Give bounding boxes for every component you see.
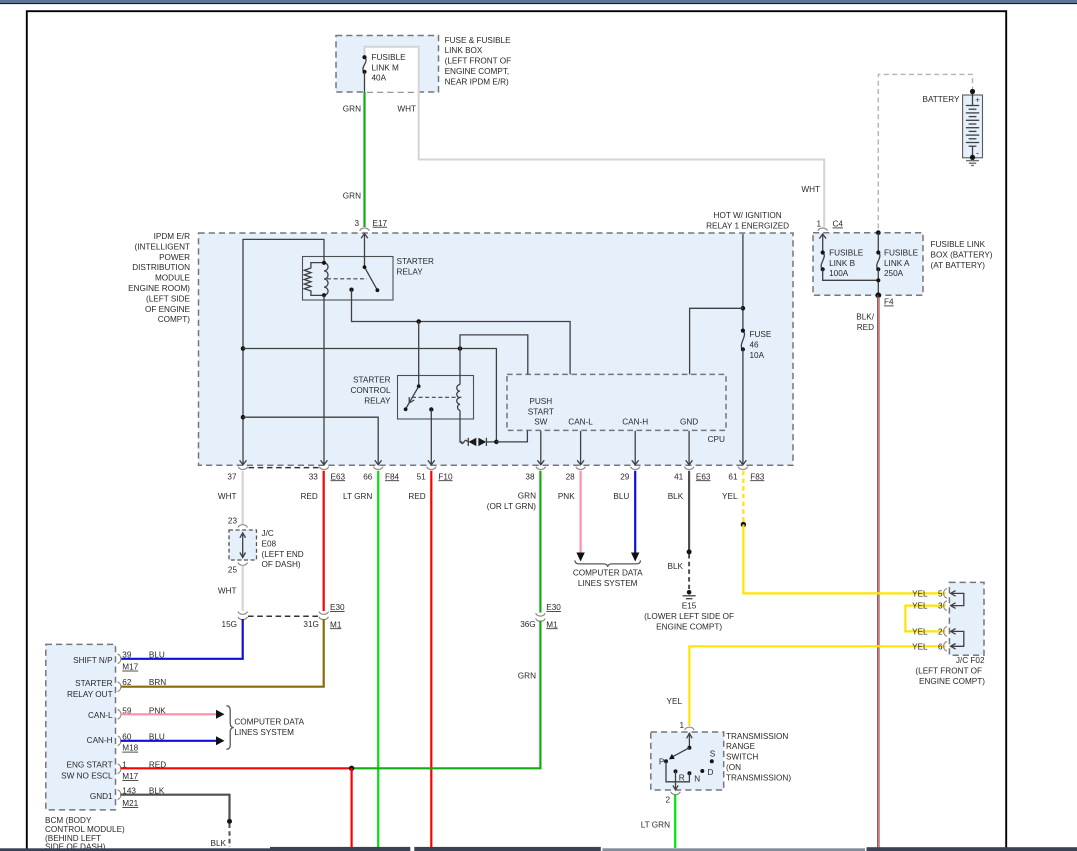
wire BRN 31G to BCM pin 62 bbox=[121, 619, 324, 687]
starter control relay box bbox=[398, 376, 474, 420]
svg-text:E15: E15 bbox=[682, 602, 697, 611]
svg-text:SW: SW bbox=[534, 418, 547, 427]
svg-text:WHT: WHT bbox=[397, 105, 416, 114]
svg-text:M21: M21 bbox=[122, 799, 138, 808]
svg-text:CAN-L: CAN-L bbox=[568, 418, 593, 427]
arrow up at C4 inside box bbox=[819, 234, 826, 239]
bottom bar segments bbox=[0, 848, 270, 851]
svg-text:E30: E30 bbox=[546, 603, 561, 612]
wire BLU CAN-H to data lines bbox=[121, 740, 217, 742]
svg-text:ENGINE COMPT): ENGINE COMPT) bbox=[656, 622, 722, 631]
ignition feed rail with fuse 46 bbox=[742, 234, 744, 331]
TRS contact P bbox=[664, 759, 668, 763]
svg-text:(LEFT FRONT OF: (LEFT FRONT OF bbox=[915, 667, 982, 676]
J/C F02 box bbox=[949, 582, 984, 655]
svg-text:23: 23 bbox=[228, 517, 238, 526]
arrow up TRS pin 1 bbox=[687, 733, 693, 738]
svg-text:ENG START: ENG START bbox=[66, 760, 112, 769]
svg-text:31G: 31G bbox=[303, 620, 318, 629]
svg-text:STARTER: STARTER bbox=[353, 376, 391, 385]
svg-text:M1: M1 bbox=[546, 620, 558, 629]
svg-text:TRANSMISSION: TRANSMISSION bbox=[726, 732, 788, 741]
svg-text:GRN: GRN bbox=[343, 105, 361, 114]
svg-text:LINK M: LINK M bbox=[372, 63, 399, 72]
wire top rail to starter relay coil bbox=[243, 239, 324, 348]
wire PNK CAN-L to data lines bbox=[121, 713, 217, 715]
starter relay box bbox=[303, 257, 394, 301]
pin arrows at IPDM bottom edge bbox=[240, 460, 747, 465]
wire LT GRN pin 66 down bbox=[377, 471, 379, 848]
svg-text:WHT: WHT bbox=[801, 185, 820, 194]
wire LT GRN TRS pin 2 down bbox=[674, 795, 676, 848]
svg-text:E63: E63 bbox=[331, 472, 346, 481]
pin connector arcs below IPDM bbox=[238, 467, 748, 470]
node F4 on box bottom bbox=[875, 292, 881, 298]
svg-text:D: D bbox=[708, 768, 714, 777]
svg-text:62: 62 bbox=[122, 678, 132, 687]
fusible link B bbox=[822, 234, 824, 253]
svg-text:DISTRIBUTION: DISTRIBUTION bbox=[132, 263, 190, 272]
svg-text:CAN-H: CAN-H bbox=[87, 736, 113, 745]
svg-text:(LEFT SIDE: (LEFT SIDE bbox=[146, 294, 191, 303]
svg-text:(LEFT FRONT OF: (LEFT FRONT OF bbox=[445, 57, 512, 66]
dashed actuator link control relay bbox=[412, 396, 462, 398]
svg-text:6: 6 bbox=[938, 642, 943, 651]
svg-text:ENGINE COMPT): ENGINE COMPT) bbox=[919, 677, 985, 686]
diode D1 (pointing left) bbox=[467, 438, 469, 446]
svg-text:E30: E30 bbox=[330, 603, 345, 612]
svg-text:66: 66 bbox=[363, 472, 373, 481]
connector arcs at 36G bbox=[536, 613, 546, 616]
wire CPU push start sw to pin 38 bbox=[540, 431, 542, 465]
double arrow inside J/C E08 bbox=[242, 535, 244, 557]
wire BLU 15G to BCM pin 39 bbox=[121, 619, 243, 659]
svg-text:BRN: BRN bbox=[149, 678, 166, 687]
connector arc 23 bbox=[238, 525, 248, 528]
white notch inside fuse box (WHT wire loop) bbox=[365, 47, 419, 92]
svg-text:LINK A: LINK A bbox=[884, 259, 910, 268]
wire YEL pin 6 to transmission range switch bbox=[689, 646, 945, 726]
starter relay switch arm bbox=[365, 267, 378, 290]
svg-text:J/C: J/C bbox=[262, 529, 274, 538]
svg-text:41: 41 bbox=[674, 472, 684, 481]
svg-text:F4: F4 bbox=[884, 298, 894, 307]
svg-text:P: P bbox=[659, 758, 665, 767]
fuse 46 symbol bbox=[741, 331, 744, 350]
svg-text:33: 33 bbox=[309, 472, 319, 481]
control relay coil bbox=[459, 349, 461, 385]
connector arc TRS pin 1 bbox=[685, 727, 695, 730]
svg-text:61: 61 bbox=[728, 472, 738, 481]
svg-text:TRANSMISSION): TRANSMISSION) bbox=[726, 773, 791, 782]
svg-text:LT GRN: LT GRN bbox=[641, 820, 670, 829]
transmission range switch box bbox=[651, 732, 724, 790]
node coil feed bbox=[458, 346, 463, 351]
wire coil to pin 33 bbox=[323, 295, 325, 464]
svg-text:M1: M1 bbox=[330, 620, 342, 629]
wire RED ENG START to junction bbox=[121, 767, 352, 769]
J/C F02 pin arcs bbox=[944, 589, 947, 652]
battery ground bars bbox=[966, 160, 979, 162]
svg-text:38: 38 bbox=[525, 472, 535, 481]
svg-text:LT GRN: LT GRN bbox=[343, 492, 372, 501]
J/C F02 internal arrows bbox=[951, 591, 956, 650]
svg-text:28: 28 bbox=[566, 472, 576, 481]
svg-text:100A: 100A bbox=[829, 269, 849, 278]
svg-text:FUSIBLE: FUSIBLE bbox=[372, 53, 407, 62]
svg-text:CONTROL MODULE): CONTROL MODULE) bbox=[45, 825, 125, 834]
dashed wire battery to fusible link box bbox=[878, 74, 972, 232]
svg-text:GND1: GND1 bbox=[90, 792, 113, 801]
wire CPU CAN-L to pin 28 bbox=[580, 431, 582, 465]
top toolbar bar bbox=[0, 0, 1077, 3]
fusible link A bbox=[877, 233, 879, 253]
svg-text:COMPT): COMPT) bbox=[158, 315, 191, 324]
svg-text:BCM (BODY: BCM (BODY bbox=[45, 816, 92, 825]
svg-text:FUSE: FUSE bbox=[750, 330, 772, 339]
brace computer data lines center bbox=[575, 560, 641, 567]
svg-text:HOT W/ IGNITION: HOT W/ IGNITION bbox=[714, 211, 782, 220]
svg-text:STARTER: STARTER bbox=[397, 257, 435, 266]
svg-text:PUSH: PUSH bbox=[529, 397, 552, 406]
svg-text:(ON: (ON bbox=[726, 763, 741, 772]
svg-text:3: 3 bbox=[938, 602, 943, 611]
wire WHT from fusible link M to C4 bbox=[365, 47, 825, 227]
wire BLK pin 41 to ground bbox=[688, 471, 690, 551]
TRS contact S bbox=[710, 759, 714, 763]
wire GRN 36G to junction with ENG START bbox=[352, 621, 541, 769]
connector arc 25 bbox=[238, 563, 248, 566]
svg-text:250A: 250A bbox=[884, 269, 904, 278]
svg-text:(LEFT END: (LEFT END bbox=[262, 550, 304, 559]
wire RED pin 33 to 31G bbox=[323, 471, 325, 611]
connector E17 arc bbox=[360, 228, 370, 231]
svg-text:NEAR IPDM E/R): NEAR IPDM E/R) bbox=[445, 77, 509, 86]
wire fuse 46 to pin 61 bbox=[742, 349, 744, 464]
svg-text:CAN-H: CAN-H bbox=[622, 418, 648, 427]
wire CPU CAN-H to pin 29 bbox=[634, 431, 636, 465]
fuse and fusible link box (top) bbox=[336, 36, 439, 93]
svg-text:BLK/: BLK/ bbox=[856, 313, 874, 322]
svg-text:N: N bbox=[694, 775, 700, 784]
IPDM E/R module box bbox=[199, 233, 794, 465]
J/C F02 internal jumper 5-3 bbox=[951, 593, 964, 605]
svg-text:GRN: GRN bbox=[518, 492, 536, 501]
svg-text:2: 2 bbox=[938, 627, 943, 636]
svg-text:(AT BATTERY): (AT BATTERY) bbox=[931, 261, 986, 270]
node links join bbox=[876, 278, 880, 282]
svg-text:39: 39 bbox=[122, 651, 132, 660]
svg-text:BLU: BLU bbox=[149, 651, 165, 660]
node on left rail bbox=[241, 346, 246, 351]
svg-text:ENGINE COMPT,: ENGINE COMPT, bbox=[445, 67, 510, 76]
svg-text:RED: RED bbox=[301, 492, 318, 501]
svg-text:+: + bbox=[975, 96, 980, 105]
wire left rail to diode branch bbox=[243, 349, 496, 442]
connector arcs at 31G bbox=[319, 612, 329, 615]
wire BLK/RED battery feed down right side bbox=[877, 295, 879, 848]
dashed bulkhead line E30/M1 bbox=[248, 615, 319, 617]
svg-text:COMPUTER DATA: COMPUTER DATA bbox=[573, 569, 643, 578]
svg-text:GRN: GRN bbox=[518, 672, 536, 681]
svg-text:(LOWER LEFT SIDE OF: (LOWER LEFT SIDE OF bbox=[644, 612, 734, 621]
svg-text:MODULE: MODULE bbox=[155, 274, 191, 283]
wire WHT pin 37 to J/C E08 bbox=[242, 471, 244, 525]
svg-text:RELAY: RELAY bbox=[364, 397, 391, 406]
J/C E08 box bbox=[229, 530, 257, 560]
svg-text:S: S bbox=[710, 750, 716, 759]
wire RED pin 51 down bbox=[430, 471, 432, 848]
svg-text:(OR LT GRN): (OR LT GRN) bbox=[487, 502, 537, 511]
svg-text:J/C F02: J/C F02 bbox=[956, 656, 985, 665]
control relay switch bbox=[418, 322, 420, 387]
svg-text:IPDM E/R: IPDM E/R bbox=[154, 232, 190, 241]
connector C4 arc bbox=[818, 228, 828, 231]
diode D2 (pointing right) bbox=[478, 438, 486, 446]
TRS contact D bbox=[700, 769, 704, 773]
svg-text:BLK: BLK bbox=[668, 492, 684, 501]
svg-text:C4: C4 bbox=[833, 220, 844, 229]
wire E17 to starter relay common bbox=[364, 234, 366, 267]
svg-text:25: 25 bbox=[228, 566, 238, 575]
wire coil to diode line bbox=[460, 410, 463, 442]
wire PNK pin 28 to data lines bbox=[579, 471, 581, 553]
svg-text:RANGE: RANGE bbox=[726, 742, 756, 751]
svg-text:BLK: BLK bbox=[211, 839, 227, 848]
wire CPU GND to pin 41 bbox=[688, 431, 690, 465]
svg-text:(INTELLIGENT: (INTELLIGENT bbox=[134, 242, 190, 251]
svg-text:29: 29 bbox=[620, 472, 630, 481]
wire control relay output to pin 51 bbox=[430, 410, 432, 465]
fusible link symbol on diode line bbox=[460, 440, 468, 443]
svg-text:LINES SYSTEM: LINES SYSTEM bbox=[578, 579, 638, 588]
dashed actuator link starter relay bbox=[327, 278, 367, 280]
wire stub below fusible link M bbox=[364, 72, 366, 92]
J/C F02 internal jumper 2-6 bbox=[951, 631, 964, 646]
svg-text:RELAY: RELAY bbox=[397, 267, 424, 276]
node battery feed on box top bbox=[876, 230, 881, 235]
svg-text:PNK: PNK bbox=[558, 492, 575, 501]
svg-text:M18: M18 bbox=[122, 744, 138, 753]
svg-text:40A: 40A bbox=[372, 73, 387, 82]
svg-text:10A: 10A bbox=[750, 351, 765, 360]
connector arcs at 15G bbox=[238, 612, 248, 615]
svg-text:FUSE & FUSIBLE: FUSE & FUSIBLE bbox=[445, 36, 512, 45]
svg-text:YEL: YEL bbox=[722, 492, 738, 501]
svg-text:51: 51 bbox=[417, 472, 427, 481]
wire GRN fusible link M to E17 bbox=[363, 92, 365, 227]
svg-text:SWITCH: SWITCH bbox=[726, 753, 758, 762]
fusible link box battery bbox=[813, 233, 923, 296]
svg-text:F83: F83 bbox=[750, 472, 765, 481]
svg-text:BOX (BATTERY): BOX (BATTERY) bbox=[931, 251, 993, 260]
wire BLK GND1 bbox=[121, 795, 230, 821]
TRS contact N bbox=[687, 771, 691, 775]
starter relay output contact bbox=[349, 288, 353, 292]
svg-text:5: 5 bbox=[938, 589, 943, 598]
svg-text:RED: RED bbox=[857, 323, 874, 332]
svg-text:BLK: BLK bbox=[668, 562, 684, 571]
svg-text:START: START bbox=[528, 407, 554, 416]
wire RED junction down bbox=[351, 768, 353, 848]
svg-text:15G: 15G bbox=[222, 620, 237, 629]
svg-text:E08: E08 bbox=[262, 539, 277, 548]
svg-text:37: 37 bbox=[227, 472, 237, 481]
svg-text:LINK BOX: LINK BOX bbox=[445, 46, 483, 55]
BCM pin connector arcs bbox=[118, 654, 121, 800]
wire YEL dashed pin 61 bbox=[742, 471, 744, 524]
dashed connector link pins 37-33 bbox=[249, 467, 319, 469]
svg-text:OF ENGINE: OF ENGINE bbox=[145, 305, 191, 314]
svg-text:LINES SYSTEM: LINES SYSTEM bbox=[234, 728, 294, 737]
svg-text:36G: 36G bbox=[520, 620, 535, 629]
svg-text:E17: E17 bbox=[373, 219, 388, 228]
control relay output contact bbox=[429, 407, 433, 411]
wire coil feed to CPU top bbox=[460, 335, 528, 375]
svg-text:BLU: BLU bbox=[613, 492, 629, 501]
wire starter relay output to CPU bbox=[352, 290, 571, 375]
connector arc TRS pin 2 bbox=[671, 792, 681, 795]
TRS wiring P to pin 2 bbox=[666, 761, 689, 782]
node ENG START junction bbox=[349, 766, 354, 771]
svg-text:GRN: GRN bbox=[343, 192, 361, 201]
wire diodes to node B bbox=[486, 441, 496, 443]
svg-text:FUSIBLE: FUSIBLE bbox=[829, 249, 864, 258]
svg-text:COMPUTER DATA: COMPUTER DATA bbox=[234, 718, 304, 727]
wire left rail to pin 66 bbox=[243, 417, 378, 464]
wire WHT J/C E08 to 15G bbox=[242, 566, 244, 612]
CPU box inside IPDM bbox=[507, 374, 726, 430]
wire left rail to pin 37 bbox=[242, 349, 244, 465]
svg-text:SW NO ESCL: SW NO ESCL bbox=[61, 771, 113, 780]
svg-text:CONTROL: CONTROL bbox=[350, 386, 390, 395]
svg-text:F10: F10 bbox=[438, 472, 453, 481]
BCM box bbox=[46, 644, 116, 810]
svg-text:-: - bbox=[976, 148, 979, 158]
battery box bbox=[963, 95, 983, 158]
svg-text:YEL: YEL bbox=[912, 589, 928, 598]
svg-text:M17: M17 bbox=[122, 663, 138, 672]
svg-text:GND: GND bbox=[680, 418, 698, 427]
svg-text:STARTER: STARTER bbox=[75, 679, 113, 688]
wire GRN pin 38 to 36G bbox=[539, 471, 541, 613]
TRS contact R bbox=[674, 769, 678, 773]
svg-text:WHT: WHT bbox=[218, 586, 237, 595]
svg-text:(BEHIND LEFT: (BEHIND LEFT bbox=[45, 834, 101, 843]
svg-text:1: 1 bbox=[679, 721, 684, 730]
svg-text:3: 3 bbox=[354, 219, 359, 228]
TRS common to arm pivot bbox=[688, 733, 690, 747]
svg-text:POWER: POWER bbox=[159, 253, 190, 262]
svg-text:M17: M17 bbox=[122, 772, 138, 781]
brace computer data lines BCM bbox=[226, 706, 233, 750]
svg-text:CAN-L: CAN-L bbox=[88, 711, 113, 720]
ground E15 bbox=[687, 590, 692, 595]
svg-text:RED: RED bbox=[408, 492, 425, 501]
svg-text:LINK B: LINK B bbox=[829, 259, 855, 268]
wire YEL jumper pin 3 to pin 2 bbox=[905, 606, 945, 632]
svg-text:FUSIBLE: FUSIBLE bbox=[884, 249, 919, 258]
wire YEL to J/C F02 pin 5 bbox=[743, 525, 945, 594]
node junction to control relay bbox=[416, 319, 421, 324]
wire node B to CPU bottom bbox=[496, 431, 527, 442]
battery terminal dots bbox=[970, 89, 975, 94]
svg-text:YEL: YEL bbox=[912, 602, 928, 611]
wire BLU pin 29 to data lines bbox=[634, 471, 636, 553]
svg-text:46: 46 bbox=[750, 340, 760, 349]
svg-text:RELAY OUT: RELAY OUT bbox=[67, 690, 113, 699]
svg-text:OF DASH): OF DASH) bbox=[262, 560, 301, 569]
svg-text:1: 1 bbox=[816, 220, 821, 229]
battery internals bbox=[972, 92, 974, 106]
svg-text:YEL: YEL bbox=[912, 642, 928, 651]
svg-text:E63: E63 bbox=[696, 472, 711, 481]
svg-text:CPU: CPU bbox=[708, 435, 725, 444]
svg-text:2: 2 bbox=[665, 796, 670, 805]
svg-text:WHT: WHT bbox=[218, 492, 237, 501]
fusible link M symbol bbox=[363, 57, 366, 72]
svg-text:RELAY 1 ENERGIZED: RELAY 1 ENERGIZED bbox=[706, 221, 789, 230]
svg-text:BATTERY: BATTERY bbox=[922, 95, 960, 104]
svg-text:ENGINE ROOM): ENGINE ROOM) bbox=[128, 284, 190, 293]
svg-text:YEL: YEL bbox=[912, 627, 928, 636]
svg-text:FUSIBLE LINK: FUSIBLE LINK bbox=[931, 240, 986, 249]
svg-text:SHIFT N/P: SHIFT N/P bbox=[73, 656, 113, 665]
svg-text:F84: F84 bbox=[385, 472, 400, 481]
node on left rail lower bbox=[241, 415, 246, 420]
svg-text:YEL: YEL bbox=[667, 697, 683, 706]
starter relay coil bbox=[304, 263, 324, 296]
arrow into IPDM at E17 bbox=[361, 234, 368, 239]
TRS switch arm to P bbox=[673, 748, 690, 757]
